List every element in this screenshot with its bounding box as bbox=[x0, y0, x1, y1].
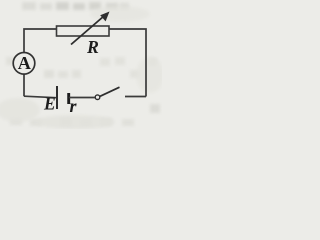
rheostat R (box) bbox=[57, 26, 110, 36]
paper mottle (decorative) bbox=[0, 6, 164, 129]
ammeter U1 (circle) bbox=[13, 53, 35, 75]
svg-text:E: E bbox=[43, 94, 56, 114]
paper background bbox=[0, 0, 162, 129]
switch lever bbox=[100, 87, 120, 96]
svg-text:A: A bbox=[18, 53, 31, 73]
wire: top-left segment (top-left corner to rheostat) bbox=[24, 29, 57, 96]
battery E long plate bbox=[56, 86, 58, 109]
switch pivot bbox=[95, 95, 100, 100]
wire: bottom-left segment (corner to battery) bbox=[24, 96, 56, 98]
rheostat arrow bbox=[71, 16, 104, 45]
battery short plate (thick) bbox=[67, 93, 70, 104]
wire: battery to switch pivot bbox=[69, 97, 95, 99]
faint bleed-through smudges (decorative) bbox=[6, 2, 160, 126]
wire: top-right segment (rheostat to top-right corner down right side) bbox=[109, 29, 146, 97]
wire: bottom-right segment (switch to bottom-right corner) bbox=[125, 96, 146, 98]
svg-text:R: R bbox=[86, 37, 99, 57]
svg-text:r: r bbox=[70, 96, 78, 116]
